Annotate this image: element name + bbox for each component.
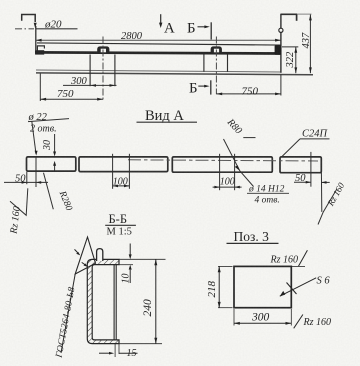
dia14 leader line lower (240, 171, 254, 187)
extension tick for 437 (297, 13, 312, 15)
hole center line right end (310, 152, 312, 187)
bar segment 1 (27, 157, 76, 171)
R80 shelf (243, 137, 255, 139)
extension for 10 upper (119, 258, 166, 260)
dimension line 2800 (36, 39, 281, 41)
dimension 30 upper shaft (54, 134, 56, 152)
hole center line 4 (dia14) (234, 154, 236, 190)
dia14 leader line upper (224, 139, 240, 171)
plate extension below (114, 344, 116, 357)
dimension line 50 right part 2 (321, 181, 329, 183)
extension for 10 lower (119, 264, 133, 266)
section mark B top arrow (198, 26, 207, 28)
hole center line 3 (dia14) (219, 154, 221, 190)
hole center line 2 (dia14) (128, 154, 130, 189)
section cut line B bottom (210, 80, 212, 94)
right end angle blob (275, 45, 281, 55)
extension below right (290, 309, 292, 326)
right end bracket top (281, 13, 297, 15)
dimension 10 upper shaft (129, 244, 131, 255)
bar right end extension down (320, 173, 322, 212)
hidden flange dash line (128, 160, 318, 161)
beam top thick edge (35, 52, 281, 53)
weld symbol triangle (75, 237, 95, 274)
bar segment 3 (172, 157, 272, 172)
dimension line 218 (218, 266, 220, 307)
extension bottom left (218, 307, 233, 309)
extension tick for 322 (282, 46, 298, 48)
section cut line B top (210, 22, 212, 39)
S6 cross tick (287, 283, 297, 295)
left corner step of beam (37, 46, 44, 54)
view arrow A (160, 14, 162, 25)
C24P leader (282, 139, 300, 157)
weld arrow 2 (82, 262, 86, 265)
hole dia22 center line left (35, 156, 37, 187)
bar segment 4 (280, 157, 321, 173)
lifting tab 1 (97, 46, 109, 53)
dimension line 100 right (213, 186, 242, 188)
dimension 15 left shaft (99, 352, 109, 354)
left extension below beam (39, 74, 41, 102)
extension for 240 bottom (119, 343, 162, 345)
welded plate (pos 3) in section (113, 265, 115, 340)
R280 leader (44, 173, 54, 210)
GOST leader line (61, 274, 75, 353)
stiffener edge left pair (89, 55, 91, 87)
S6 leader (280, 278, 316, 296)
beam lower inner edge (36, 70, 281, 72)
dimension 10 lower shaft (129, 270, 131, 283)
left corner thick blob (35, 50, 44, 54)
dimension line 50 left (4, 181, 48, 183)
dia20 center/leader line (15, 28, 34, 30)
surface mark right Rz160 (318, 189, 337, 225)
left end hook (bent top of end plate) (22, 15, 36, 23)
dimension line 750 right (216, 93, 281, 95)
dimension line 240 (155, 259, 157, 343)
dimension line 750 left (40, 98, 103, 100)
channel profile with hatch (87, 259, 119, 343)
plate rectangle (234, 266, 291, 307)
lifting tab 2 (211, 46, 222, 53)
stiffener edge right pair (203, 55, 205, 72)
tab 2 center line (215, 37, 217, 95)
bar left edge extension down (26, 172, 28, 184)
beam top thin edge (37, 43, 281, 45)
dimension 30 lower shaft (54, 164, 56, 171)
dia22 leader slant (32, 121, 36, 154)
extension top left (218, 265, 233, 267)
dia20 leader arrow (points down) (34, 23, 37, 29)
dimension line 50 right part 1 (294, 181, 311, 183)
surface mark left Rz160 (10, 188, 28, 215)
left end plate vertical (35, 26, 37, 55)
extension below left (233, 309, 235, 326)
dimension line 322 (295, 47, 297, 73)
hole center line 1 (dia14) (112, 154, 114, 189)
right end plate vertical (280, 14, 282, 73)
C24P shelf (300, 138, 330, 140)
lug in section (97, 249, 103, 261)
title underline (227, 242, 279, 244)
dia14 text shelf (247, 192, 289, 194)
tab 1 center line (102, 37, 104, 100)
dimension line 437 (309, 15, 311, 74)
dimension 15 right tail (119, 352, 138, 354)
dimension line 300 (63, 84, 117, 86)
hole dia20 in right end plate (279, 28, 283, 32)
section mark B bottom arrow (198, 85, 206, 87)
Rz160 bottom slash (294, 315, 303, 329)
right extension below beam (280, 74, 282, 95)
dia22 leader shelf (28, 119, 69, 122)
flange tip extension down (118, 344, 120, 354)
top edge extension right (291, 265, 305, 267)
dimension line 100 left (113, 185, 130, 187)
beam bottom edge (extends right under dims) (36, 73, 313, 75)
bar segment 2 (79, 157, 168, 172)
weld arrow 1 (75, 249, 79, 253)
dimension line 300 (234, 322, 291, 324)
Rz160 top slash (298, 250, 307, 266)
title underline (105, 224, 136, 226)
